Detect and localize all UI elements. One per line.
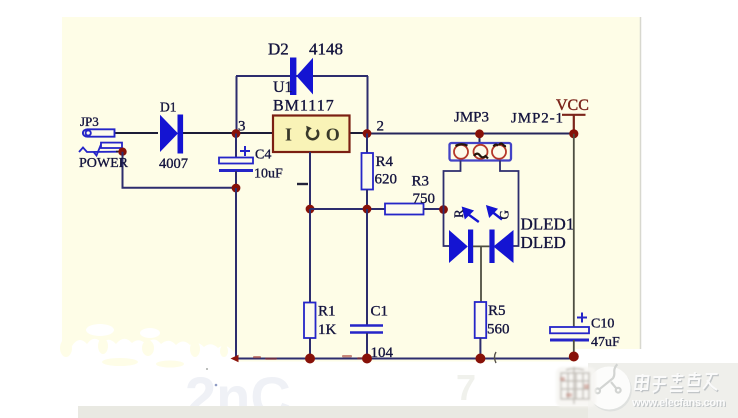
wire: D1 cathode to node 3 [183, 132, 236, 134]
svg-text:3: 3 [238, 119, 246, 135]
resistor R3 [385, 204, 424, 215]
svg-text:2: 2 [377, 119, 385, 135]
LED emission arrows [463, 207, 502, 222]
capacitor C4 [235, 134, 237, 158]
wire: VCC node down to C10 (gray) [573, 134, 575, 327]
wire: left rail down [235, 188, 237, 359]
svg-text:R3: R3 [412, 174, 430, 190]
faint ghost mark [185, 365, 476, 418]
wire: JMP3 stub from main rail [479, 134, 481, 144]
capacitor C1 [366, 209, 368, 325]
wire: JP3 tip to D1 [115, 132, 158, 134]
watermark chinese glyph approximations (embossed) [635, 372, 721, 393]
svg-text:VCC: VCC [556, 97, 589, 114]
LED middle link [473, 245, 489, 247]
junction dot JMP3 [475, 129, 484, 138]
svg-text:47uF: 47uF [591, 335, 620, 350]
tiny specks [215, 384, 218, 387]
svg-text:1K: 1K [318, 322, 337, 338]
diode D2 [290, 58, 313, 96]
regulator U1 BM1117 box [273, 116, 350, 153]
svg-text:G: G [497, 210, 512, 219]
svg-text:DLED: DLED [521, 233, 566, 252]
wire: node 2 to VCC node (main rail) [367, 133, 574, 135]
svg-text:R5: R5 [488, 303, 506, 319]
junction dot POWER [118, 148, 126, 156]
svg-text:DLED1: DLED1 [521, 215, 575, 234]
diode D1 [160, 115, 183, 154]
svg-text:4007: 4007 [159, 156, 188, 172]
node 2 junction dot [363, 129, 372, 138]
svg-text:R1: R1 [318, 304, 336, 320]
wire: node 3 to U1 input [236, 132, 273, 134]
wire: JMP3 pin1 leg to LED left anode [444, 161, 461, 247]
node G row junction [306, 205, 315, 214]
svg-text:BM1117: BM1117 [273, 98, 335, 115]
junction dot C10 bottom [569, 352, 579, 362]
svg-text:www.elecfans.com: www.elecfans.com [631, 397, 726, 409]
bottom gray band [78, 406, 738, 418]
svg-text:JMP3: JMP3 [454, 110, 489, 126]
junction dot R3 right [439, 205, 448, 214]
wire: D2 loop right vertical [367, 76, 369, 133]
watermark logo circle [589, 369, 632, 412]
junction dot VCC node [569, 129, 578, 138]
wire: D2 loop top horizontal [236, 75, 368, 77]
svg-text:560: 560 [487, 322, 510, 338]
wire: U1 G pin down [309, 152, 311, 209]
resistor R5 [475, 302, 487, 338]
svg-text:C1: C1 [371, 304, 389, 320]
watermark area bottom right [588, 363, 738, 418]
svg-text:R: R [451, 209, 466, 218]
svg-text:JP3: JP3 [80, 114, 99, 129]
node 3 junction dot [232, 129, 241, 138]
wire: D2 loop left vertical [236, 76, 238, 133]
connector JMP3 [450, 143, 512, 161]
wire: U1 output to node 2 [349, 132, 367, 134]
svg-text:C4: C4 [255, 148, 271, 163]
C4 plus sign [240, 146, 250, 156]
svg-text:U1: U1 [273, 79, 293, 96]
red corner mark [231, 355, 239, 362]
resistor R1 [309, 209, 311, 303]
connector JP3 tip pin [83, 129, 115, 136]
blurred stamp remnant [556, 367, 596, 407]
svg-text:O: O [326, 125, 340, 145]
C10 plus sign [577, 313, 587, 323]
svg-text:D1: D1 [160, 100, 177, 115]
svg-text:R4: R4 [376, 154, 394, 170]
capacitor C10 [550, 327, 589, 333]
junction dot R5 bottom [475, 354, 485, 364]
svg-text:I: I [285, 125, 292, 145]
svg-text:7: 7 [456, 367, 476, 408]
white erase blobs bottom-left [61, 324, 642, 418]
junction dot R4 bottom [363, 205, 372, 214]
junction dot R1 bottom [305, 354, 315, 364]
small pen mark right of R5 node [495, 352, 497, 363]
wire: LED middle down to R5 (gray) [480, 246, 482, 302]
svg-text:4148: 4148 [309, 40, 343, 59]
junction dot C1 bottom [362, 354, 372, 364]
svg-text:D2: D2 [268, 40, 289, 59]
red smudge remnants on rail [253, 355, 366, 360]
junction dot C4 bottom [232, 184, 241, 193]
wire: POWER junction down and right to C4 bottom node [123, 152, 237, 188]
svg-text:750: 750 [413, 191, 436, 207]
wire: JMP3 pin3 leg to LED right anode [500, 161, 519, 247]
minus dash near G pin [297, 183, 308, 185]
svg-text:C10: C10 [591, 317, 614, 332]
wire: row2 horizontal G-node to R3 [310, 208, 385, 210]
wire: sleeve to junction [116, 148, 122, 152]
wire: bottom ground rail [236, 358, 574, 360]
pen squiggles on JMP3 [456, 144, 507, 159]
svg-text:POWER: POWER [79, 156, 129, 171]
svg-text:104: 104 [371, 345, 394, 361]
dual LED DLED1 [449, 230, 514, 264]
resistor R4 [366, 134, 368, 154]
power VCC symbol [562, 115, 586, 134]
connector JP3 sleeve/switch pin [79, 143, 122, 156]
svg-text:620: 620 [375, 172, 398, 188]
cream slivers between erased lines [60, 338, 228, 368]
svg-text:10uF: 10uF [254, 167, 283, 182]
right border gray line [640, 17, 642, 375]
